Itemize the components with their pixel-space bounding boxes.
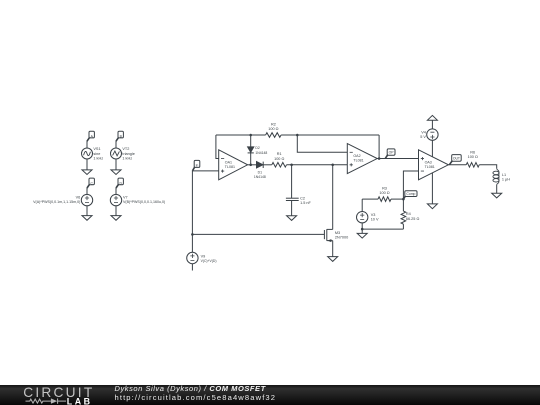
svg-text:2N7000: 2N7000 [335, 236, 348, 240]
svg-text:OA3: OA3 [425, 160, 432, 164]
wire [361, 223, 363, 229]
svg-text:66.25 Ω: 66.25 Ω [406, 217, 420, 221]
resistor R2 [266, 133, 281, 138]
svg-text:VT2: VT2 [122, 147, 129, 151]
wire [248, 164, 257, 166]
svg-text:V4: V4 [421, 131, 426, 135]
svg-text:V(C)+V(D): V(C)+V(D) [201, 259, 217, 263]
svg-text:R6: R6 [470, 151, 475, 155]
svg-text:OA2: OA2 [353, 154, 360, 158]
svg-text:100 Ω: 100 Ω [268, 127, 278, 131]
voltage source V3 [357, 212, 368, 223]
svg-text:1 µH: 1 µH [502, 178, 510, 182]
wire [192, 170, 218, 172]
svg-text:Comp: Comp [406, 192, 415, 196]
svg-text:1.5 nF: 1.5 nF [300, 201, 311, 205]
ground [287, 216, 297, 221]
footer title [115, 385, 266, 393]
op-amp OA2 [347, 144, 377, 174]
diode D2 [248, 147, 254, 153]
svg-text:1 kHz: 1 kHz [122, 156, 132, 160]
svg-text:V(B)*PWS(0,0,0.1,160u,0): V(B)*PWS(0,0,0.1,160u,0) [123, 200, 165, 204]
svg-text:10 V: 10 V [371, 218, 379, 222]
node junction [296, 134, 299, 137]
svg-text:M3: M3 [335, 231, 340, 235]
node OP [385, 149, 395, 159]
op-amp OA1 [219, 150, 248, 180]
ground [82, 159, 92, 175]
node junction [402, 198, 405, 201]
svg-text:TL081: TL081 [425, 165, 435, 169]
svg-text:R1: R1 [277, 152, 282, 156]
wire [378, 135, 380, 159]
wire [263, 164, 272, 166]
svg-text:V3: V3 [371, 213, 376, 217]
node In [192, 160, 199, 171]
svg-text:triangle: triangle [122, 152, 134, 156]
voltage source VT2 [111, 148, 122, 159]
svg-text:100 Ω: 100 Ω [468, 155, 478, 159]
svg-text:100 Ω: 100 Ω [274, 157, 284, 161]
node junction [290, 164, 293, 167]
wire [431, 173, 433, 204]
logo CircuitLab [0, 385, 110, 405]
wire [192, 233, 324, 235]
wire [361, 199, 363, 211]
wire [281, 134, 379, 136]
voltage source V6 [81, 194, 92, 205]
wire [291, 165, 293, 198]
wire [191, 234, 193, 252]
node D [116, 178, 123, 188]
svg-text:1N4148: 1N4148 [255, 151, 267, 155]
resistor R1 [272, 163, 287, 168]
capacitor C2 [286, 198, 299, 200]
wire [216, 134, 266, 136]
transistor M3 [324, 229, 332, 242]
svg-text:5 V: 5 V [420, 135, 426, 139]
wire [431, 140, 433, 157]
svg-text:1 kHz: 1 kHz [93, 156, 103, 160]
wire [391, 198, 403, 200]
svg-text:sine: sine [93, 152, 100, 156]
svg-text:OA1: OA1 [225, 160, 232, 164]
svg-text:TL081: TL081 [225, 165, 235, 169]
power VEE arrow [427, 204, 437, 209]
resistor R6 [466, 163, 479, 168]
wire [191, 171, 193, 235]
svg-text:In: In [196, 163, 199, 167]
resistor R4 [401, 211, 406, 224]
wire [115, 141, 117, 148]
svg-text:R3: R3 [382, 187, 387, 191]
svg-text:OP: OP [389, 151, 395, 155]
wire [86, 188, 88, 195]
wire [431, 120, 433, 129]
wire [250, 135, 252, 165]
svg-text:OUT: OUT [453, 157, 460, 161]
power VCC arrow [427, 115, 437, 120]
diode D1 [257, 162, 264, 168]
wire [216, 135, 219, 159]
wire [362, 198, 378, 200]
wire [448, 164, 466, 166]
wire [332, 165, 334, 230]
wire [496, 185, 498, 193]
svg-text:C2: C2 [300, 196, 305, 200]
ground [82, 206, 92, 221]
svg-text:TL081: TL081 [353, 159, 363, 163]
wire [291, 201, 293, 216]
wire [403, 171, 418, 199]
svg-text:R2: R2 [271, 123, 276, 127]
voltage source V4 [427, 129, 438, 140]
svg-text:V9: V9 [201, 254, 206, 258]
svg-text:1N4148: 1N4148 [254, 175, 266, 179]
footer bar [0, 385, 540, 405]
wire [377, 158, 418, 160]
node OUT [449, 155, 461, 165]
svg-text:LAB: LAB [67, 396, 93, 405]
ground [492, 193, 502, 198]
node junction [249, 164, 252, 167]
svg-text:D2: D2 [255, 146, 259, 150]
node junction [249, 134, 252, 137]
wire [86, 141, 88, 148]
ground [328, 257, 338, 262]
voltage source V9 [187, 252, 198, 263]
node junction [378, 157, 381, 160]
wire [402, 199, 404, 211]
node Comp [403, 191, 417, 199]
resistor R3 [378, 197, 391, 202]
svg-text:100 Ω: 100 Ω [379, 191, 389, 195]
wire [479, 165, 497, 169]
voltage source V7 [110, 194, 121, 205]
node junction [361, 228, 364, 231]
node A [87, 131, 94, 141]
wire [402, 224, 404, 229]
svg-text:R4: R4 [406, 212, 411, 216]
wire [287, 164, 348, 166]
wire [332, 241, 334, 257]
svg-text:V6: V6 [76, 195, 81, 199]
svg-text:D1: D1 [258, 171, 262, 175]
inductor L1 [493, 168, 499, 185]
wire [362, 228, 403, 230]
op-amp OA3 [419, 150, 449, 180]
node junction [191, 233, 194, 236]
wire [191, 264, 193, 271]
svg-text:L1: L1 [502, 173, 506, 177]
node B [116, 131, 123, 141]
svg-text:VS1: VS1 [93, 147, 100, 151]
svg-text:V7: V7 [123, 195, 128, 199]
wire [297, 135, 347, 152]
svg-text:V(A)*PWS(0,0.1m,1,1.15m,0): V(A)*PWS(0,0.1m,1,1.15m,0) [33, 200, 80, 204]
ground [111, 206, 121, 221]
ground [357, 229, 367, 238]
node junction [331, 164, 334, 167]
ground [111, 159, 121, 175]
node C [87, 178, 94, 188]
voltage source VS1 [82, 148, 93, 159]
wire [115, 188, 117, 195]
